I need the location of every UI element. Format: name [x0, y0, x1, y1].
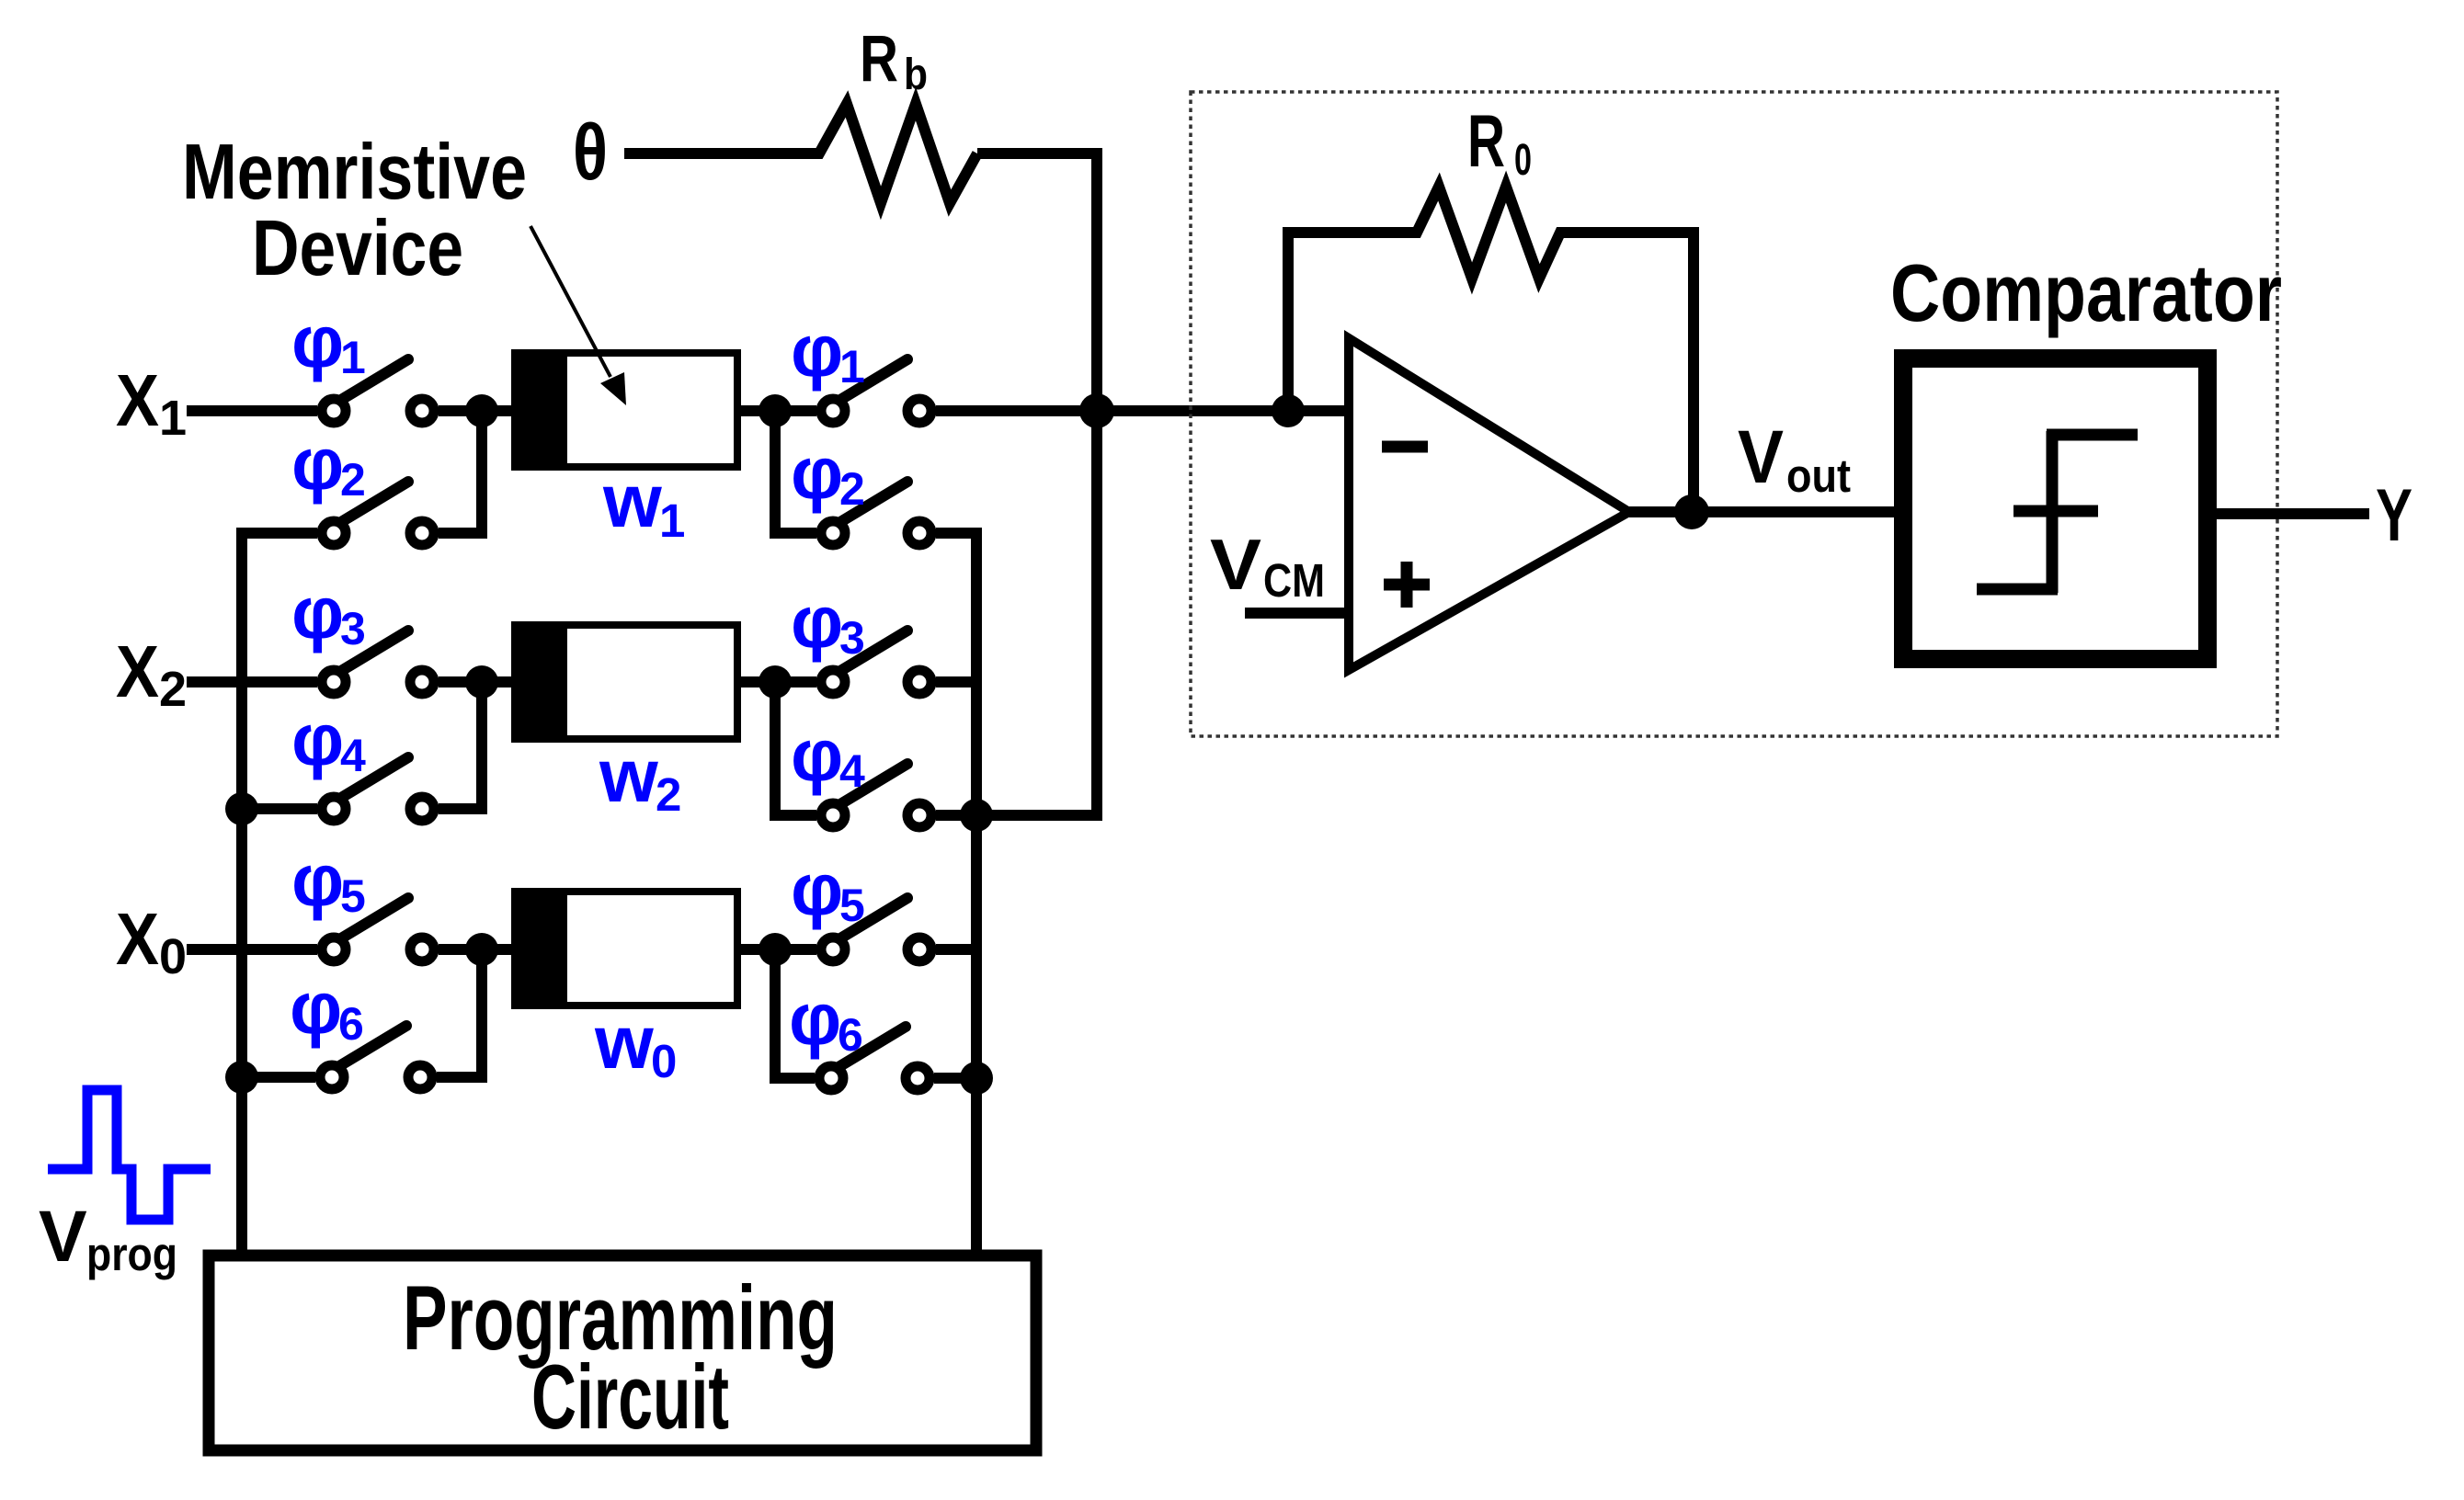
- wire phi1R out to main bus: [936, 405, 1102, 416]
- svg-text:X: X: [116, 631, 159, 712]
- wire node C to memristor w2: [482, 676, 515, 687]
- svg-text:2: 2: [656, 768, 681, 821]
- svg-text:5: 5: [839, 880, 865, 931]
- resistor R0 feedback: [1288, 187, 1694, 513]
- label w2: [599, 734, 681, 821]
- label phi1 right: [791, 310, 865, 392]
- wire right bus node to main bus bottom: [976, 810, 1102, 821]
- svg-text:2: 2: [159, 662, 187, 717]
- wire comparator output to Y: [2217, 508, 2369, 519]
- label phi4 right: [791, 714, 865, 797]
- svg-text:X: X: [116, 359, 159, 441]
- svg-text:Device: Device: [252, 205, 463, 292]
- junction node F: [759, 933, 792, 966]
- svg-text:Circuit: Circuit: [531, 1346, 729, 1448]
- wire phi4R out to right bus node: [936, 810, 976, 821]
- switch phi2 left: [322, 482, 434, 545]
- svg-text:θ: θ: [573, 108, 608, 197]
- label X2: [116, 631, 187, 717]
- svg-text:0: 0: [1514, 136, 1532, 185]
- wire node D down to phi4R: [775, 682, 816, 815]
- wire phi6L from left bus: [242, 1072, 315, 1083]
- wire VCM to op-amp plus input: [1245, 608, 1349, 619]
- wire Rb to main bus corner and main bus vertical: [977, 153, 1097, 815]
- switch phi1 left: [322, 359, 434, 423]
- svg-text:1: 1: [659, 494, 685, 547]
- wire node F down to phi6R: [775, 949, 815, 1078]
- switch phi1 right: [821, 359, 931, 423]
- label phi6 left: [290, 967, 364, 1050]
- wire X0 input: [187, 944, 317, 955]
- switch phi4 right: [821, 764, 931, 827]
- switch phi3 right: [821, 631, 931, 694]
- wire theta to resistor Rb: [624, 104, 977, 203]
- svg-text:4: 4: [839, 745, 865, 797]
- svg-text:6: 6: [338, 998, 364, 1050]
- memristor w0: [511, 888, 737, 1009]
- svg-text:Memristive: Memristive: [182, 129, 527, 216]
- svg-text:φ: φ: [791, 714, 843, 796]
- programming circuit box: [209, 1256, 1036, 1450]
- svg-text:4: 4: [340, 730, 366, 781]
- svg-text:out: out: [1786, 449, 1851, 502]
- op-amp plus sign: [1384, 562, 1430, 608]
- svg-text:φ: φ: [789, 978, 841, 1060]
- junction right bus phi4: [960, 799, 993, 832]
- memristor w1: [511, 349, 737, 471]
- svg-text:φ: φ: [791, 581, 843, 663]
- junction op-amp output: [1674, 494, 1709, 529]
- svg-text:2: 2: [340, 454, 366, 506]
- svg-text:0: 0: [651, 1035, 677, 1087]
- junction main bus row1: [1079, 393, 1114, 428]
- label w1: [602, 460, 685, 547]
- wire phi2L out up to node A: [439, 411, 482, 533]
- label X1: [116, 359, 187, 446]
- switch phi6 right: [819, 1027, 930, 1090]
- svg-text:w: w: [594, 1001, 654, 1085]
- svg-text:3: 3: [839, 612, 865, 664]
- wire op-amp output: [1629, 506, 1894, 517]
- svg-text:V: V: [1738, 415, 1784, 499]
- wire phi5L out to node E: [439, 944, 512, 955]
- label Vprog: [39, 1195, 177, 1280]
- label phi1 left: [291, 301, 366, 383]
- wire left bus to programming circuit: [236, 1077, 247, 1256]
- wire phi3L out to node C: [439, 676, 512, 687]
- svg-text:3: 3: [340, 603, 366, 654]
- svg-text:Comparator: Comparator: [1890, 247, 2282, 338]
- svg-text:φ: φ: [291, 839, 344, 921]
- svg-text:φ: φ: [791, 432, 843, 514]
- wire phi6R out to right bus node: [934, 1073, 976, 1084]
- svg-text:R: R: [1467, 100, 1505, 183]
- wire memristor w1 to node B: [740, 405, 816, 416]
- label Rb: [860, 23, 928, 99]
- wire phi1L out to node A: [439, 405, 512, 416]
- label phi6 right: [789, 978, 863, 1061]
- svg-text:Y: Y: [2376, 474, 2413, 557]
- svg-text:w: w: [602, 460, 662, 543]
- label phi3 left: [291, 572, 366, 654]
- svg-text:1: 1: [159, 391, 187, 446]
- label phi5 left: [291, 839, 366, 922]
- label phi2 left: [291, 423, 366, 506]
- wire left bus lower: [236, 809, 247, 1077]
- wire phi6L out up to node E: [437, 949, 482, 1077]
- wire memristor w2 to node D: [740, 676, 816, 687]
- svg-text:6: 6: [838, 1009, 863, 1061]
- junction node B: [759, 394, 792, 427]
- svg-text:X: X: [116, 898, 159, 980]
- switch phi2 right: [821, 482, 931, 545]
- svg-text:2: 2: [839, 463, 865, 515]
- svg-text:b: b: [904, 51, 928, 99]
- junction node A: [465, 394, 498, 427]
- junction feedback input: [1272, 394, 1305, 427]
- wire phi2L corner to switch: [242, 528, 317, 533]
- junction left bus phi6: [225, 1061, 258, 1094]
- switch phi5 left: [322, 898, 434, 961]
- label phi4 left: [291, 699, 366, 781]
- svg-text:prog: prog: [86, 1228, 177, 1280]
- junction right bus phi6: [960, 1062, 993, 1095]
- svg-text:R: R: [860, 23, 898, 96]
- wire node A to memristor w1: [482, 405, 515, 416]
- label Memristive Device: [182, 129, 527, 292]
- label w0: [594, 1001, 677, 1087]
- wire node B down to phi2R: [775, 411, 816, 533]
- svg-text:1: 1: [340, 332, 366, 383]
- wire main bus to op-amp input: [1097, 405, 1349, 416]
- label phi2 right: [791, 432, 865, 515]
- svg-text:5: 5: [340, 870, 366, 922]
- label X0: [116, 898, 187, 984]
- dashed box around amplifier stage: [1191, 92, 2277, 736]
- arrow from label to memristor w1: [530, 226, 626, 405]
- wire phi3R out to right bus: [936, 676, 976, 687]
- switch phi6 left: [320, 1026, 432, 1089]
- comparator hysteresis symbol: [1977, 431, 2138, 593]
- memristor w2: [511, 621, 737, 743]
- switch phi5 right: [821, 898, 931, 961]
- wire phi2R out to right bus corner: [936, 533, 976, 815]
- comparator box: [1903, 358, 2207, 659]
- svg-text:φ: φ: [791, 848, 843, 930]
- label phi3 right: [791, 581, 865, 664]
- svg-text:φ: φ: [291, 423, 344, 505]
- svg-text:φ: φ: [291, 572, 344, 653]
- junction node E: [465, 933, 498, 966]
- wire left bus upper: [236, 533, 247, 809]
- switch phi3 left: [322, 631, 434, 694]
- wire X2 input: [187, 676, 317, 687]
- label phi5 right: [791, 848, 865, 931]
- svg-text:1: 1: [839, 341, 865, 392]
- Vprog waveform: [48, 1090, 211, 1220]
- op-amp U1: [1349, 338, 1629, 670]
- wire phi4L from left bus: [242, 803, 317, 814]
- op-amp minus sign: [1382, 441, 1428, 453]
- wire X1 input: [187, 405, 317, 416]
- svg-text:φ: φ: [791, 310, 843, 392]
- junction node C: [465, 665, 498, 699]
- junction node D: [759, 665, 792, 699]
- svg-text:φ: φ: [290, 967, 342, 1049]
- wire right bus to programming circuit: [971, 815, 982, 1256]
- wire memristor w0 to node F: [740, 944, 816, 955]
- wire phi5R out to right bus: [936, 944, 976, 955]
- wire phi4L out up to node C: [439, 682, 482, 809]
- label R0: [1467, 100, 1532, 185]
- wire node E to memristor w0: [482, 944, 515, 955]
- svg-text:φ: φ: [291, 301, 344, 382]
- switch phi4 left: [322, 757, 434, 821]
- svg-text:0: 0: [159, 929, 187, 984]
- svg-text:V: V: [1210, 524, 1261, 605]
- svg-text:φ: φ: [291, 699, 344, 780]
- label Programming Circuit: [403, 1267, 838, 1448]
- label VCM: [1210, 524, 1325, 607]
- svg-text:V: V: [39, 1195, 87, 1277]
- svg-text:w: w: [599, 734, 658, 818]
- svg-text:CM: CM: [1263, 554, 1325, 607]
- junction left bus phi4: [225, 792, 258, 825]
- label Vout: [1738, 415, 1851, 502]
